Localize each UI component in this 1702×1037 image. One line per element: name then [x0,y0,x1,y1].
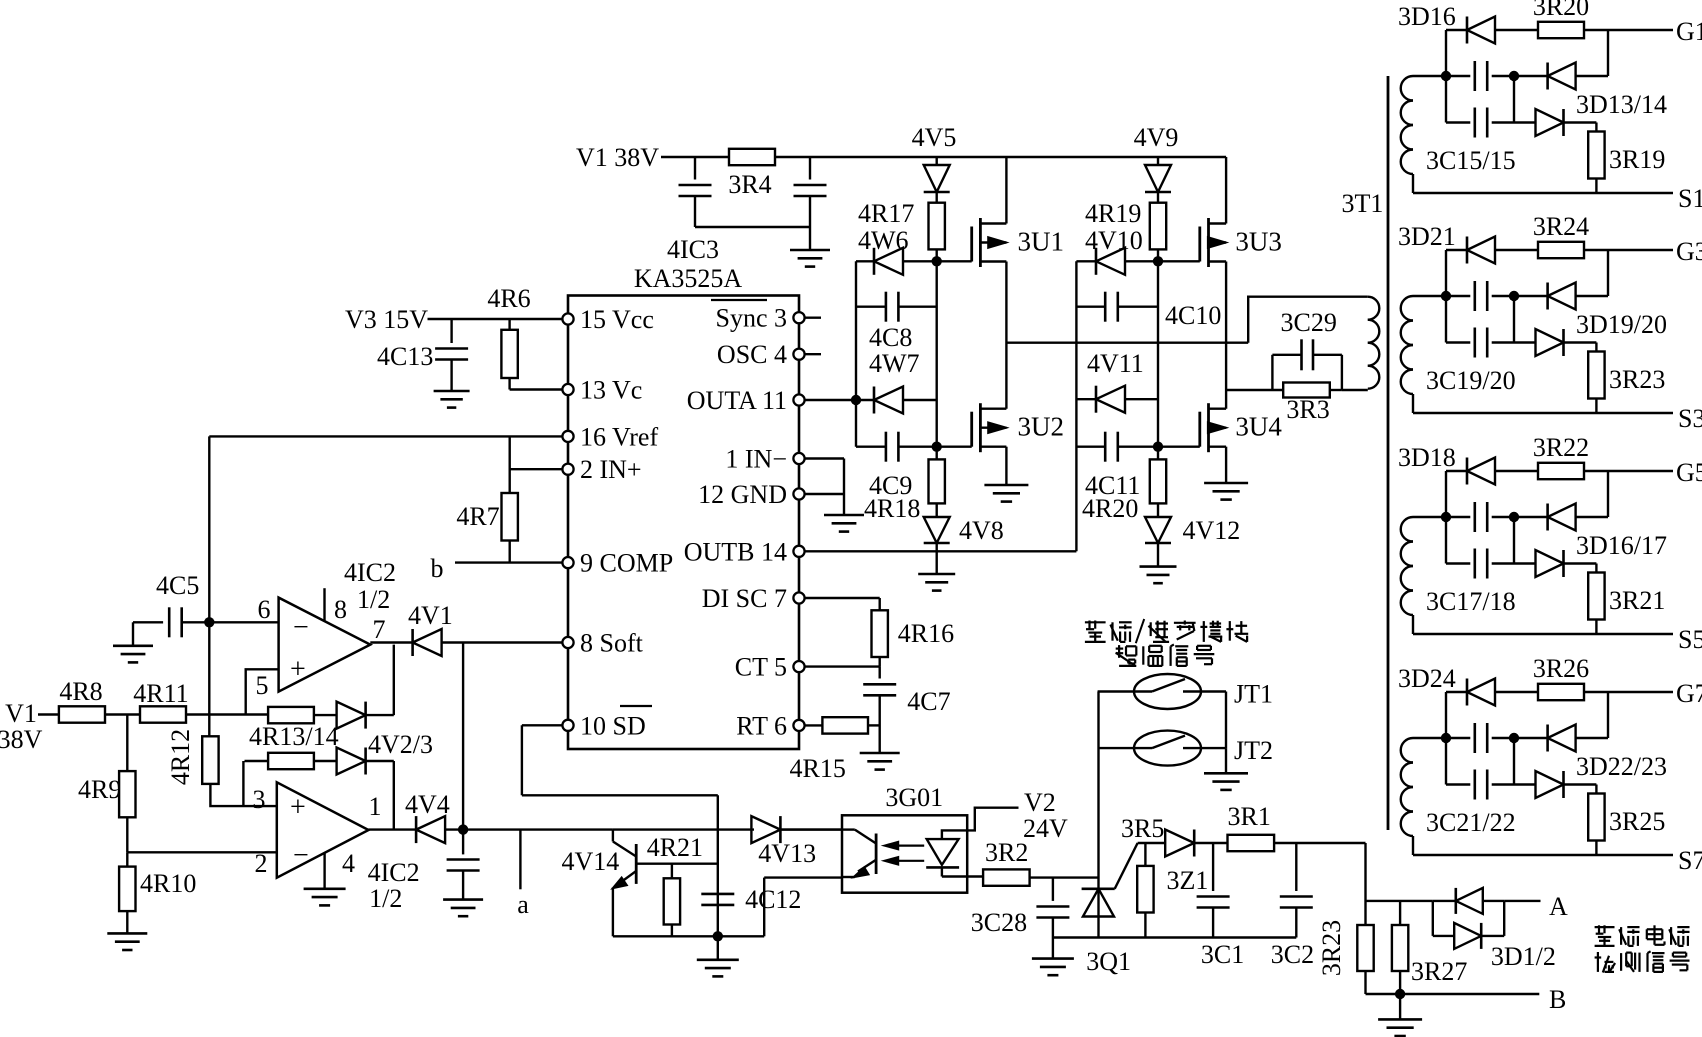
svg-text:4IC2: 4IC2 [344,558,396,587]
svg-text:4R7: 4R7 [456,502,499,531]
svg-text:3D13/14: 3D13/14 [1576,90,1667,119]
svg-text:4R17: 4R17 [858,199,914,228]
svg-text:4R11: 4R11 [133,679,188,708]
svg-text:15 Vcc: 15 Vcc [580,305,654,334]
svg-text:3R21: 3R21 [1609,586,1665,615]
svg-text:3C17/18: 3C17/18 [1426,587,1516,616]
svg-text:4C10: 4C10 [1165,301,1221,330]
svg-text:V3 15V: V3 15V [345,305,428,334]
svg-text:4R10: 4R10 [140,869,196,898]
svg-text:9 COMP: 9 COMP [580,549,673,578]
svg-text:a: a [517,890,529,919]
svg-text:4R16: 4R16 [898,619,954,648]
svg-text:4C13: 4C13 [377,342,433,371]
svg-text:3D18: 3D18 [1398,443,1456,472]
svg-text:1: 1 [369,792,382,821]
svg-text:13 Vc: 13 Vc [580,376,642,405]
svg-text:3R2: 3R2 [985,838,1028,867]
svg-text:3C2: 3C2 [1271,940,1314,969]
svg-text:A: A [1549,892,1568,921]
svg-text:+: + [290,792,306,823]
svg-text:4IC2: 4IC2 [368,858,420,887]
svg-text:4V8: 4V8 [959,516,1004,545]
svg-text:4V1: 4V1 [408,601,453,630]
svg-text:10 SD: 10 SD [580,711,646,740]
svg-text:JT2: JT2 [1234,736,1273,765]
svg-text:Sync 3: Sync 3 [716,304,788,333]
svg-text:24V: 24V [1023,814,1068,843]
svg-text:S5: S5 [1678,625,1702,654]
svg-text:4V11: 4V11 [1087,349,1144,378]
svg-text:V2: V2 [1024,788,1056,817]
svg-text:3D16/17: 3D16/17 [1576,531,1667,560]
svg-text:3D21: 3D21 [1398,222,1456,251]
svg-text:4W6: 4W6 [858,226,909,255]
svg-text:3D24: 3D24 [1398,664,1456,693]
svg-text:3Q1: 3Q1 [1086,947,1131,976]
svg-text:3R3: 3R3 [1286,395,1329,424]
svg-text:4R9: 4R9 [78,775,121,804]
svg-text:RT 6: RT 6 [736,711,787,740]
svg-text:3Z1: 3Z1 [1167,866,1209,895]
svg-text:4V2/3: 4V2/3 [368,730,433,759]
svg-text:V1: V1 [5,699,37,728]
svg-text:7: 7 [373,615,386,644]
svg-text:3R1: 3R1 [1228,802,1271,831]
svg-text:4R13/14: 4R13/14 [249,722,339,751]
svg-text:3D22/23: 3D22/23 [1576,752,1667,781]
svg-text:3C28: 3C28 [971,908,1027,937]
svg-text:G3: G3 [1676,237,1702,266]
svg-text:3C1: 3C1 [1201,940,1244,969]
svg-text:38V: 38V [0,725,43,754]
svg-text:3C29: 3C29 [1281,308,1337,337]
svg-text:4C5: 4C5 [156,571,199,600]
svg-text:4R8: 4R8 [59,677,102,706]
svg-text:4V5: 4V5 [912,123,957,152]
svg-text:4R12: 4R12 [166,729,195,785]
svg-text:3R26: 3R26 [1533,654,1589,683]
svg-text:3G01: 3G01 [885,783,943,812]
svg-text:4R6: 4R6 [487,284,530,313]
svg-text:S7: S7 [1678,846,1702,875]
svg-text:3R23: 3R23 [1609,365,1665,394]
svg-text:4R20: 4R20 [1082,494,1138,523]
svg-text:2: 2 [255,849,268,878]
svg-text:1/2: 1/2 [369,884,402,913]
svg-text:5: 5 [256,671,269,700]
svg-text:3U1: 3U1 [1018,227,1065,257]
svg-text:3R22: 3R22 [1533,433,1589,462]
svg-text:12 GND: 12 GND [698,480,787,509]
svg-text:JT1: JT1 [1234,680,1273,709]
svg-text:V1 38V: V1 38V [576,143,659,172]
svg-text:S3: S3 [1678,404,1702,433]
svg-text:3R5: 3R5 [1121,814,1164,843]
svg-text:G5: G5 [1676,458,1702,487]
svg-text:OUTA 11: OUTA 11 [687,386,787,415]
svg-text:KA3525A: KA3525A [634,264,743,293]
svg-text:OUTB 14: OUTB 14 [684,537,787,566]
svg-text:3C19/20: 3C19/20 [1426,366,1516,395]
svg-text:3C15/15: 3C15/15 [1426,146,1516,175]
svg-text:−: − [293,612,309,643]
svg-text:4W7: 4W7 [869,349,920,378]
svg-text:1/2: 1/2 [357,585,390,614]
svg-text:4V12: 4V12 [1183,516,1241,545]
svg-text:3U4: 3U4 [1235,412,1282,442]
svg-text:8 Soft: 8 Soft [580,629,644,658]
svg-text:b: b [431,554,444,583]
svg-text:6: 6 [258,595,271,624]
svg-text:2 IN+: 2 IN+ [580,455,642,484]
svg-text:4V4: 4V4 [405,790,450,819]
svg-text:3R23: 3R23 [1317,920,1346,976]
svg-text:4IC3: 4IC3 [667,235,719,264]
svg-text:4C12: 4C12 [745,885,801,914]
svg-text:4R21: 4R21 [647,833,703,862]
svg-text:3R27: 3R27 [1411,957,1467,986]
svg-text:3D16: 3D16 [1398,2,1456,31]
svg-text:3: 3 [253,785,266,814]
svg-text:G7: G7 [1676,679,1702,708]
svg-text:B: B [1549,985,1566,1014]
svg-text:+: + [290,654,306,685]
svg-text:8: 8 [334,595,347,624]
svg-text:CT 5: CT 5 [735,653,787,682]
svg-text:1 IN−: 1 IN− [725,445,787,474]
svg-text:S1: S1 [1678,184,1702,213]
svg-text:3R4: 3R4 [728,170,771,199]
svg-text:3D1/2: 3D1/2 [1491,942,1556,971]
svg-text:4V10: 4V10 [1085,226,1143,255]
svg-text:16 Vref: 16 Vref [580,422,658,451]
svg-text:4R18: 4R18 [864,494,920,523]
svg-text:3T1: 3T1 [1342,189,1384,218]
svg-text:4C8: 4C8 [869,323,912,352]
svg-text:3R20: 3R20 [1533,0,1589,21]
svg-text:3R19: 3R19 [1609,145,1665,174]
svg-text:4R19: 4R19 [1085,199,1141,228]
svg-text:OSC 4: OSC 4 [717,340,787,369]
svg-text:G1: G1 [1676,17,1702,46]
svg-text:3C21/22: 3C21/22 [1426,808,1516,837]
svg-text:3U2: 3U2 [1018,412,1065,442]
svg-text:3R25: 3R25 [1609,807,1665,836]
svg-text:−: − [293,840,309,871]
svg-text:4: 4 [342,849,355,878]
svg-text:DI SC 7: DI SC 7 [702,584,787,613]
svg-text:3D19/20: 3D19/20 [1576,310,1667,339]
svg-text:3U3: 3U3 [1235,227,1282,257]
svg-text:4R15: 4R15 [790,754,846,783]
svg-text:3R24: 3R24 [1533,212,1589,241]
svg-text:4V14: 4V14 [562,847,620,876]
svg-text:4V9: 4V9 [1134,123,1179,152]
svg-text:4V13: 4V13 [758,839,816,868]
svg-text:4C7: 4C7 [907,687,950,716]
